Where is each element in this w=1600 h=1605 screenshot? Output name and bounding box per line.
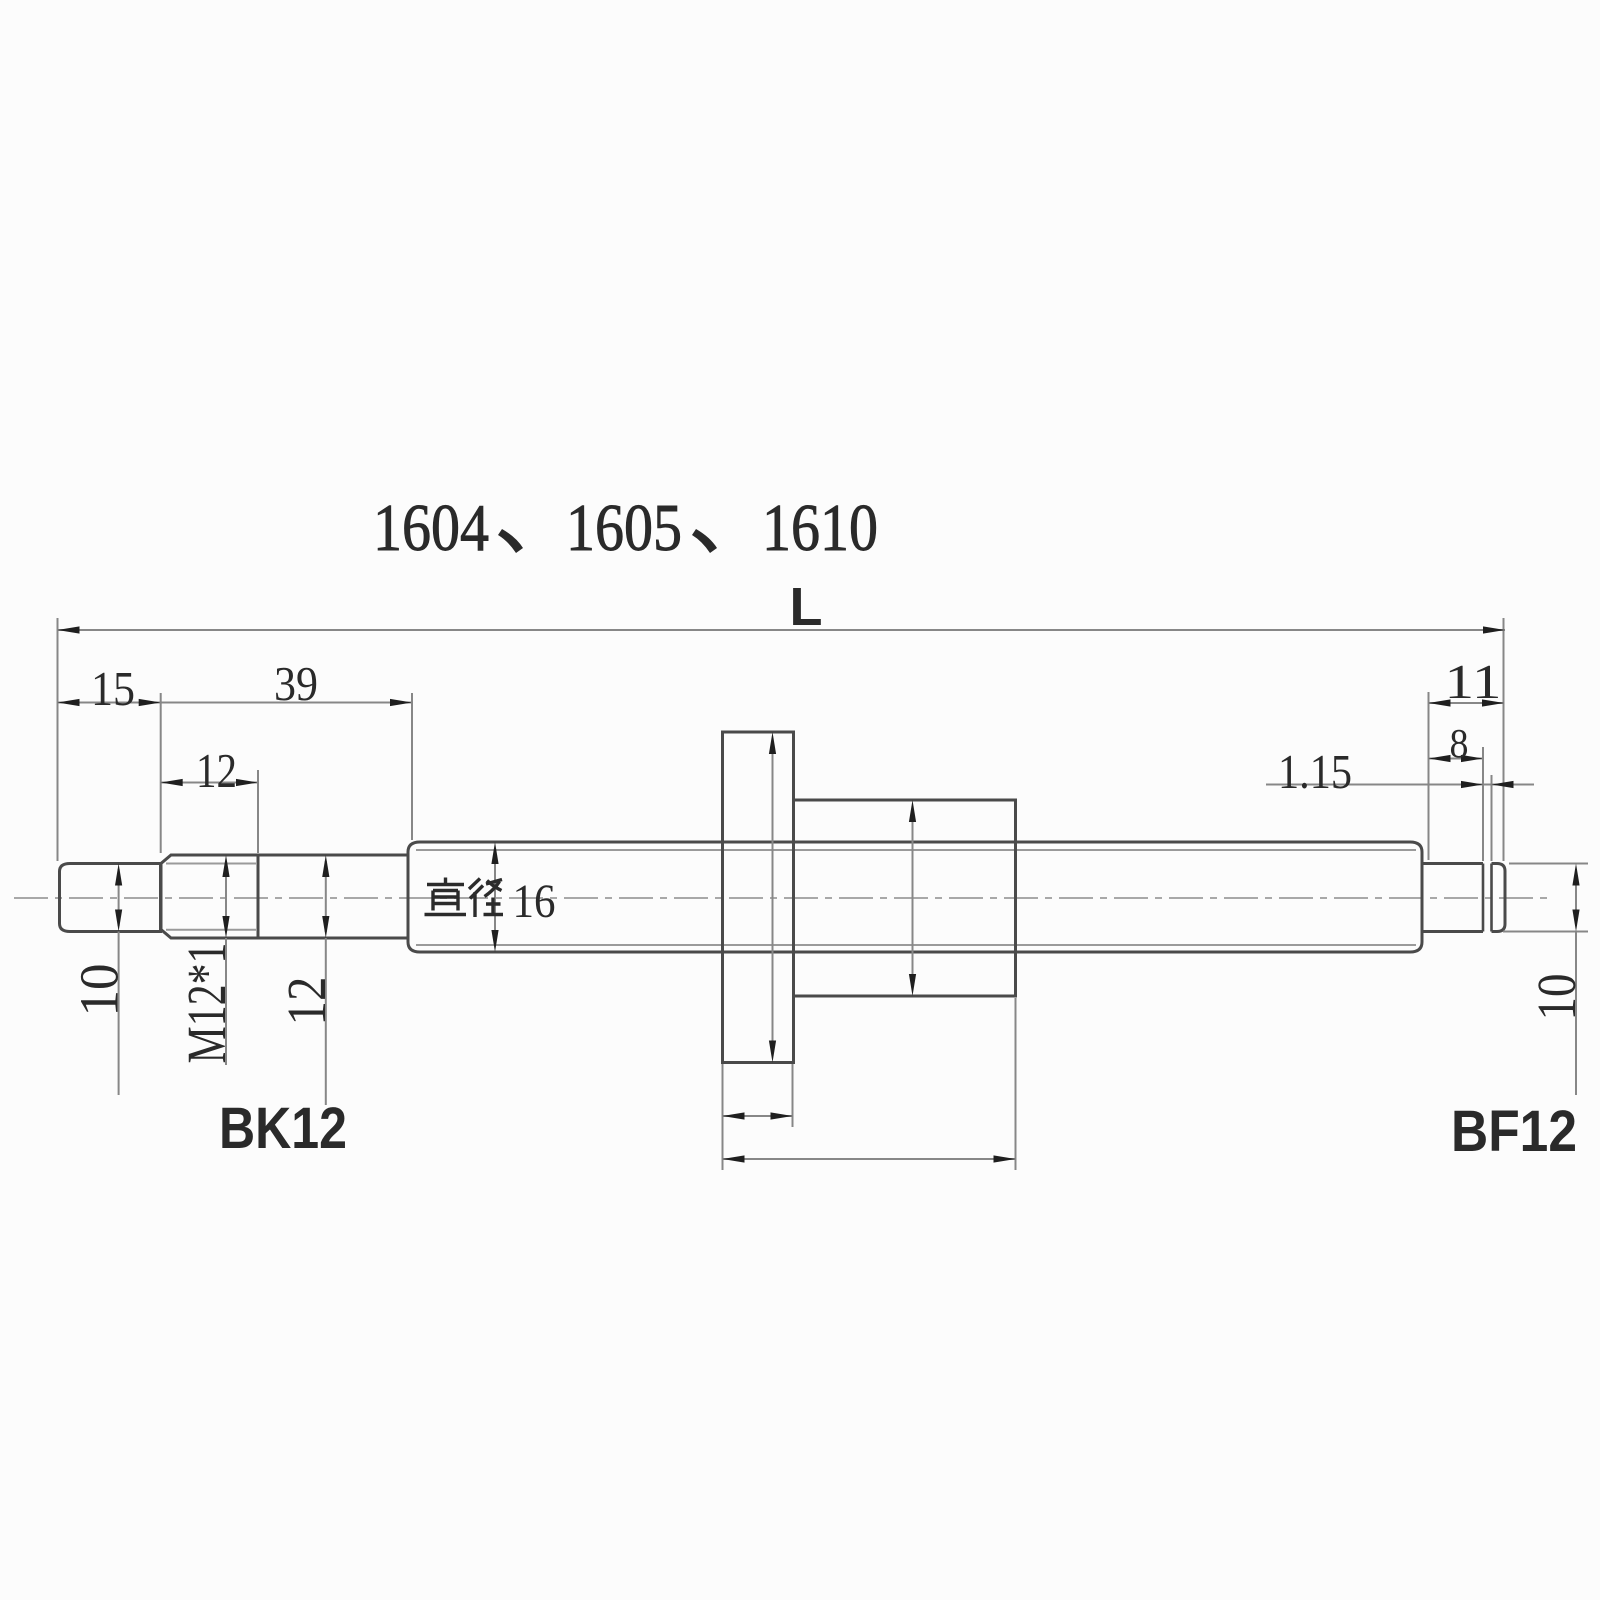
nut diameter dimension arrows: [912, 806, 914, 990]
flange diameter dimension arrows: [772, 738, 774, 1056]
dimension 1.15 line: [1266, 784, 1534, 786]
svg-text:1610: 1610: [762, 491, 878, 565]
extension line groove left x=1483: [1482, 747, 1484, 861]
dimension M12*1 tail: [225, 938, 227, 1065]
svg-text:BK12: BK12: [219, 1096, 347, 1161]
svg-text:10: 10: [1526, 974, 1587, 1021]
dimension diam 10 left arrows: [118, 869, 120, 926]
left end journal (diam 10): [60, 864, 161, 932]
thread root line bottom (M12): [166, 929, 256, 931]
extension line x=258: [257, 770, 259, 853]
plain shoulder section (diam 12): [258, 855, 408, 938]
svg-text:BF12: BF12: [1451, 1099, 1577, 1164]
thread root line bottom (screw): [416, 944, 1416, 946]
circlip groove right edge: [1490, 864, 1493, 932]
dimension 39 line: [161, 702, 412, 704]
right diam 10 extension bottom: [1503, 931, 1588, 933]
right end journal (diam 10): [1422, 864, 1483, 932]
dimension 8 line: [1429, 758, 1484, 760]
dimension 12 line: [161, 782, 258, 784]
nut flange: [723, 732, 794, 1063]
dimension 12 vertical tail: [325, 938, 327, 1105]
dimension 11 line: [1429, 702, 1505, 704]
right end cap: [1492, 864, 1506, 932]
nut length dimension line: [723, 1158, 1016, 1160]
nut body: [794, 800, 1016, 996]
extension line x=1428.5: [1428, 692, 1430, 860]
dimension diam 10 left tail: [118, 932, 120, 1096]
ideographic comma 1: [498, 529, 523, 553]
svg-text:16: 16: [513, 875, 556, 928]
M12*1 threaded section: [161, 855, 258, 938]
svg-text:8: 8: [1450, 720, 1469, 766]
flange width extension right: [792, 1064, 794, 1127]
thread root line top (M12): [166, 863, 256, 865]
circlip groove left edge: [1482, 864, 1485, 932]
dimension L extension line right: [1503, 618, 1505, 861]
thread root line top (screw): [416, 849, 1416, 851]
svg-text:10: 10: [69, 964, 130, 1017]
extension line groove right x=1491.5: [1491, 775, 1493, 861]
svg-text:M12*1: M12*1: [176, 943, 237, 1064]
dimension M12*1 arrows: [225, 861, 227, 932]
dimension diam 10 right arrows: [1575, 869, 1577, 926]
svg-text:11: 11: [1445, 654, 1502, 709]
flange width dimension line: [723, 1115, 793, 1117]
nut length extension right: [1015, 998, 1017, 1170]
centerline: [14, 897, 1548, 899]
main screw body (diam 16): [408, 842, 1422, 952]
diameter 16 hanzi zhi: [425, 878, 467, 915]
svg-text:12: 12: [276, 977, 337, 1026]
svg-text:L: L: [790, 577, 823, 637]
shared extension line x=160.7: [160, 693, 162, 853]
svg-text:1604: 1604: [373, 491, 489, 565]
extension line x=412: [411, 693, 413, 840]
dimension diam 10 right tail: [1575, 932, 1577, 1096]
right diam 10 extension top: [1509, 863, 1588, 865]
dimension diam 16 arrows: [494, 848, 496, 946]
dimension 12 vertical arrows: [325, 861, 327, 932]
svg-text:12: 12: [196, 743, 237, 798]
diameter 16 hanzi jing: [469, 879, 503, 918]
flange width extension left: [722, 1064, 724, 1170]
dimension 15 line: [58, 702, 161, 704]
dimension L extension line left: [57, 618, 59, 861]
dimension L line: [58, 629, 1506, 631]
svg-text:1605: 1605: [566, 491, 682, 565]
svg-text:15: 15: [91, 661, 135, 716]
svg-text:39: 39: [274, 656, 318, 711]
ideographic comma 2: [692, 529, 717, 553]
svg-text:1.15: 1.15: [1278, 744, 1352, 799]
